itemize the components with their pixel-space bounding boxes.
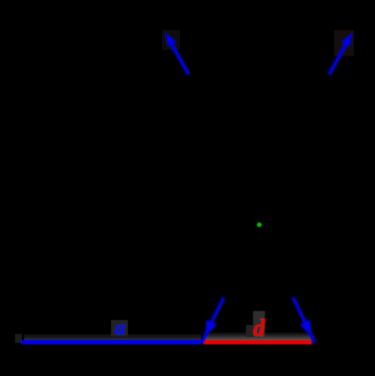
svg-text:d: d (253, 316, 266, 342)
ray arrow upper-right (points up-right) (329, 33, 353, 75)
green source dot (257, 223, 262, 228)
dimension line a (blue) (22, 340, 202, 344)
jpeg halo band above screen line (left, above blue a-line) (24, 333, 201, 340)
ray arrow lower-left (points down-left into left slit) (202, 298, 224, 344)
jpeg halo blob at left end of a-line (15, 334, 22, 343)
svg-text:a: a (115, 316, 126, 340)
jpeg halo box behind label a (111, 320, 128, 336)
jpeg halo column behind label d (253, 311, 265, 337)
jpeg halo step left of label d (246, 325, 254, 337)
jpeg halo band above screen line (right, above red d-line) (204, 332, 311, 340)
jpeg halo box near top-right arrowhead (334, 30, 354, 56)
ray arrow upper-left (points up-left) (165, 33, 189, 75)
dimension line d (red) (204, 340, 312, 344)
jpeg halo box near top-left arrowhead (162, 30, 180, 50)
ray arrow lower-right (points down-right into right slit) (293, 298, 315, 344)
